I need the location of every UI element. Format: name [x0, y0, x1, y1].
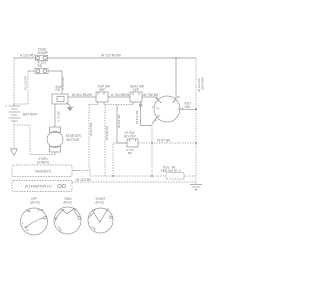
svg-text:MOTOR: MOTOR	[67, 138, 80, 142]
wire top bus from fuse to right bus	[48, 57, 196, 59]
wire seat switch to key switch	[142, 97, 162, 103]
wire brake switch to right bus	[138, 142, 196, 144]
wire solenoid to starter	[54, 104, 56, 127]
wire main top feed net B+	[14, 57, 35, 59]
node right bus key junction	[195, 108, 197, 110]
svg-text:(M+G): (M+G)	[31, 201, 40, 205]
wire PTO to seat switch	[108, 96, 130, 98]
node brake bus junction	[151, 142, 153, 144]
key switch terminal G	[158, 115, 160, 116]
svg-text:B: B	[29, 209, 31, 213]
wire alternator return row	[72, 181, 196, 183]
OFF circle terminal letters	[22, 208, 44, 232]
wire PTO ground drop	[89, 104, 98, 106]
svg-text:B: B	[62, 208, 64, 212]
svg-text:L: L	[55, 219, 57, 223]
interlock module box	[166, 173, 184, 180]
connector J1	[35, 68, 48, 73]
node seat riser connector	[139, 104, 142, 107]
svg-text:NO OFF: NO OFF	[124, 134, 136, 138]
wire starter return	[36, 154, 55, 156]
wire left feed drop to battery	[13, 58, 15, 104]
switch BRAKE SW S4	[127, 139, 138, 147]
wire connector branch riser	[27, 71, 29, 104]
svg-text:20 AMP: 20 AMP	[37, 51, 48, 55]
svg-text:W 123 RD/W: W 123 RD/W	[101, 54, 122, 58]
magneto box	[12, 165, 72, 177]
svg-text:A 123 RD: A 123 RD	[20, 54, 35, 58]
wire brake stub left	[113, 142, 127, 144]
svg-text:A 764 BK/W: A 764 BK/W	[111, 93, 130, 97]
wire right bus drop	[195, 58, 197, 184]
key switch terminal L	[156, 108, 158, 110]
wire key switch A to right bus	[181, 108, 197, 110]
svg-text:M: M	[177, 95, 180, 99]
svg-text:G: G	[60, 228, 63, 232]
svg-text:G: G	[94, 228, 97, 232]
svg-text:RD: RD	[38, 64, 43, 68]
key position circle OFF	[21, 208, 48, 235]
wire battery negative loop to starter return	[14, 125, 36, 155]
svg-text:A 123 RD: A 123 RD	[61, 76, 65, 90]
START circle terminals and contacts	[89, 210, 112, 229]
wire seat pin to keyswitch G riser	[141, 102, 153, 126]
START circle terminal letters	[88, 208, 110, 232]
svg-text:BATTERY: BATTERY	[23, 112, 39, 116]
svg-text:SW.: SW.	[185, 105, 191, 109]
wire key switch B branch	[173, 58, 176, 103]
svg-text:M: M	[107, 208, 110, 212]
svg-text:MAGNETO: MAGNETO	[35, 170, 52, 174]
svg-text:RD: RD	[56, 88, 61, 92]
node ground row junction 1	[112, 175, 114, 177]
ground main chassis triangle	[190, 185, 202, 192]
wire vertical net C to brake switch	[117, 105, 127, 144]
wire battery top tie	[14, 103, 28, 105]
svg-text:ALTERNATOR CO: ALTERNATOR CO	[25, 185, 52, 189]
wire key switch G terminal lead	[152, 117, 158, 125]
svg-text:W 87 BK: W 87 BK	[157, 139, 171, 143]
svg-text:B: B	[94, 208, 96, 212]
wire interlock tie row	[105, 104, 133, 106]
wire ground riser G net	[151, 125, 153, 176]
svg-text:W 514 RD/W: W 514 RD/W	[72, 93, 93, 97]
switch PTO SW S2	[96, 92, 108, 105]
wire magneto stub row	[76, 170, 90, 172]
wire connector to solenoid riser	[49, 71, 63, 94]
svg-text:W 87A BK: W 87A BK	[135, 110, 139, 124]
wire solenoid output row to PTO switch	[68, 96, 96, 98]
svg-text:SEE NOTE 2: SEE NOTE 2	[161, 169, 181, 173]
wire solenoid ground branch	[66, 103, 70, 109]
wire connector row	[28, 70, 35, 72]
alternator connector circles	[58, 184, 66, 187]
svg-text:W 92A BK: W 92A BK	[89, 122, 93, 136]
wire left ground riser	[112, 144, 114, 176]
fuse F1	[36, 55, 48, 60]
key switch terminal M	[173, 100, 175, 103]
svg-text:B: B	[156, 96, 158, 100]
svg-text:L: L	[22, 221, 24, 225]
switch SEAT SW S3	[130, 92, 142, 105]
node junction key switch branch	[175, 57, 177, 59]
RUN circle terminals and contacts	[55, 209, 81, 229]
svg-text:W 123 RD: W 123 RD	[24, 75, 28, 90]
key switch S1 body	[154, 96, 180, 122]
rotated wire labels	[24, 75, 205, 140]
svg-text:(4 AWG): (4 AWG)	[37, 160, 49, 164]
svg-text:+: +	[5, 105, 7, 109]
OFF circle terminals and contact bar	[25, 209, 47, 229]
svg-text:W 92B BK: W 92B BK	[105, 126, 109, 140]
svg-text:OFF: OFF	[99, 88, 105, 92]
key switch terminal B	[159, 101, 161, 103]
key position circle START	[88, 208, 113, 233]
svg-text:G: G	[155, 118, 158, 122]
node right bus brake junction	[195, 142, 197, 144]
wire battery negative drop	[13, 121, 15, 149]
labels text layer	[5, 48, 192, 233]
svg-text:W 123 BK: W 123 BK	[76, 178, 92, 182]
ground solenoid arrow	[67, 107, 74, 111]
key position circle RUN	[54, 207, 81, 234]
svg-text:(B+S): (B+S)	[96, 201, 104, 205]
wire step riser	[89, 171, 91, 177]
svg-text:W 951 BK: W 951 BK	[117, 114, 121, 128]
svg-text:G: G	[26, 228, 29, 232]
svg-text:BK: BK	[128, 151, 132, 155]
svg-text:OFF: OFF	[133, 88, 139, 92]
node ground row junction 2	[151, 175, 153, 177]
key switch terminal A	[178, 108, 181, 110]
svg-text:L: L	[88, 220, 90, 224]
alternator box	[12, 181, 72, 192]
wire vertical net A	[88, 105, 90, 171]
wire vertical net B	[104, 105, 106, 177]
solenoid K1	[52, 94, 68, 104]
wire ground row mid	[90, 175, 166, 177]
svg-text:(B+A): (B+A)	[64, 201, 72, 205]
battery B1	[9, 104, 21, 121]
RUN circle terminal letters	[55, 207, 77, 232]
motor starter M1	[47, 127, 63, 155]
ground battery arrow	[11, 149, 18, 156]
key switch terminal letters	[152, 95, 184, 122]
wire ground row to bus	[184, 175, 196, 177]
svg-text:GROUND: GROUND	[201, 76, 205, 90]
svg-text:A 16 BK: A 16 BK	[57, 111, 61, 122]
wire magneto stub	[72, 170, 76, 172]
svg-text:A: A	[182, 106, 184, 110]
